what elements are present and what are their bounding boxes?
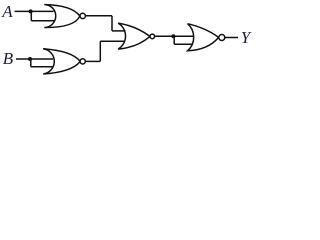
- wire U2 top input: [31, 58, 53, 60]
- wire U1 top input: [31, 10, 53, 12]
- wire U1 bottom input: [31, 20, 54, 22]
- wire U1 output horizontal: [85, 15, 112, 17]
- nor-gate U2 body: [43, 49, 80, 74]
- wire B to junction: [16, 58, 31, 60]
- wire U4 bottom input: [174, 43, 192, 45]
- wire U3 bottom input: [100, 40, 124, 42]
- wire U2 output vertical: [99, 41, 101, 61]
- nor-gate U3 output bubble: [150, 34, 155, 39]
- wire junction vertical Y: [173, 36, 175, 44]
- nor-gate U4 body: [188, 24, 219, 51]
- nor-gate U1 output bubble: [80, 13, 85, 18]
- wire U4 output: [225, 37, 238, 39]
- svg-text:A: A: [1, 2, 13, 21]
- wire U3 output to junction: [155, 35, 175, 37]
- node Y junction dot: [171, 34, 175, 38]
- nor-gate U3 body: [118, 23, 150, 49]
- wire U4 top input: [174, 35, 194, 37]
- nor-gate U2 output bubble: [80, 59, 85, 64]
- node B junction dot: [28, 57, 32, 61]
- svg-text:B: B: [3, 49, 14, 68]
- wire U1 output vertical: [111, 16, 113, 31]
- wire A to junction: [15, 10, 32, 12]
- wire U3 top input: [112, 30, 126, 32]
- wire junction vertical A: [30, 11, 32, 20]
- wire U2 output horizontal: [85, 60, 100, 62]
- node A junction dot: [29, 9, 33, 13]
- wire U2 bottom input: [31, 66, 53, 68]
- nor-gate U4 output bubble: [219, 35, 225, 41]
- svg-text:Y: Y: [241, 28, 252, 47]
- nor-gate U1 body: [44, 5, 80, 28]
- wire junction vertical B: [30, 59, 32, 67]
